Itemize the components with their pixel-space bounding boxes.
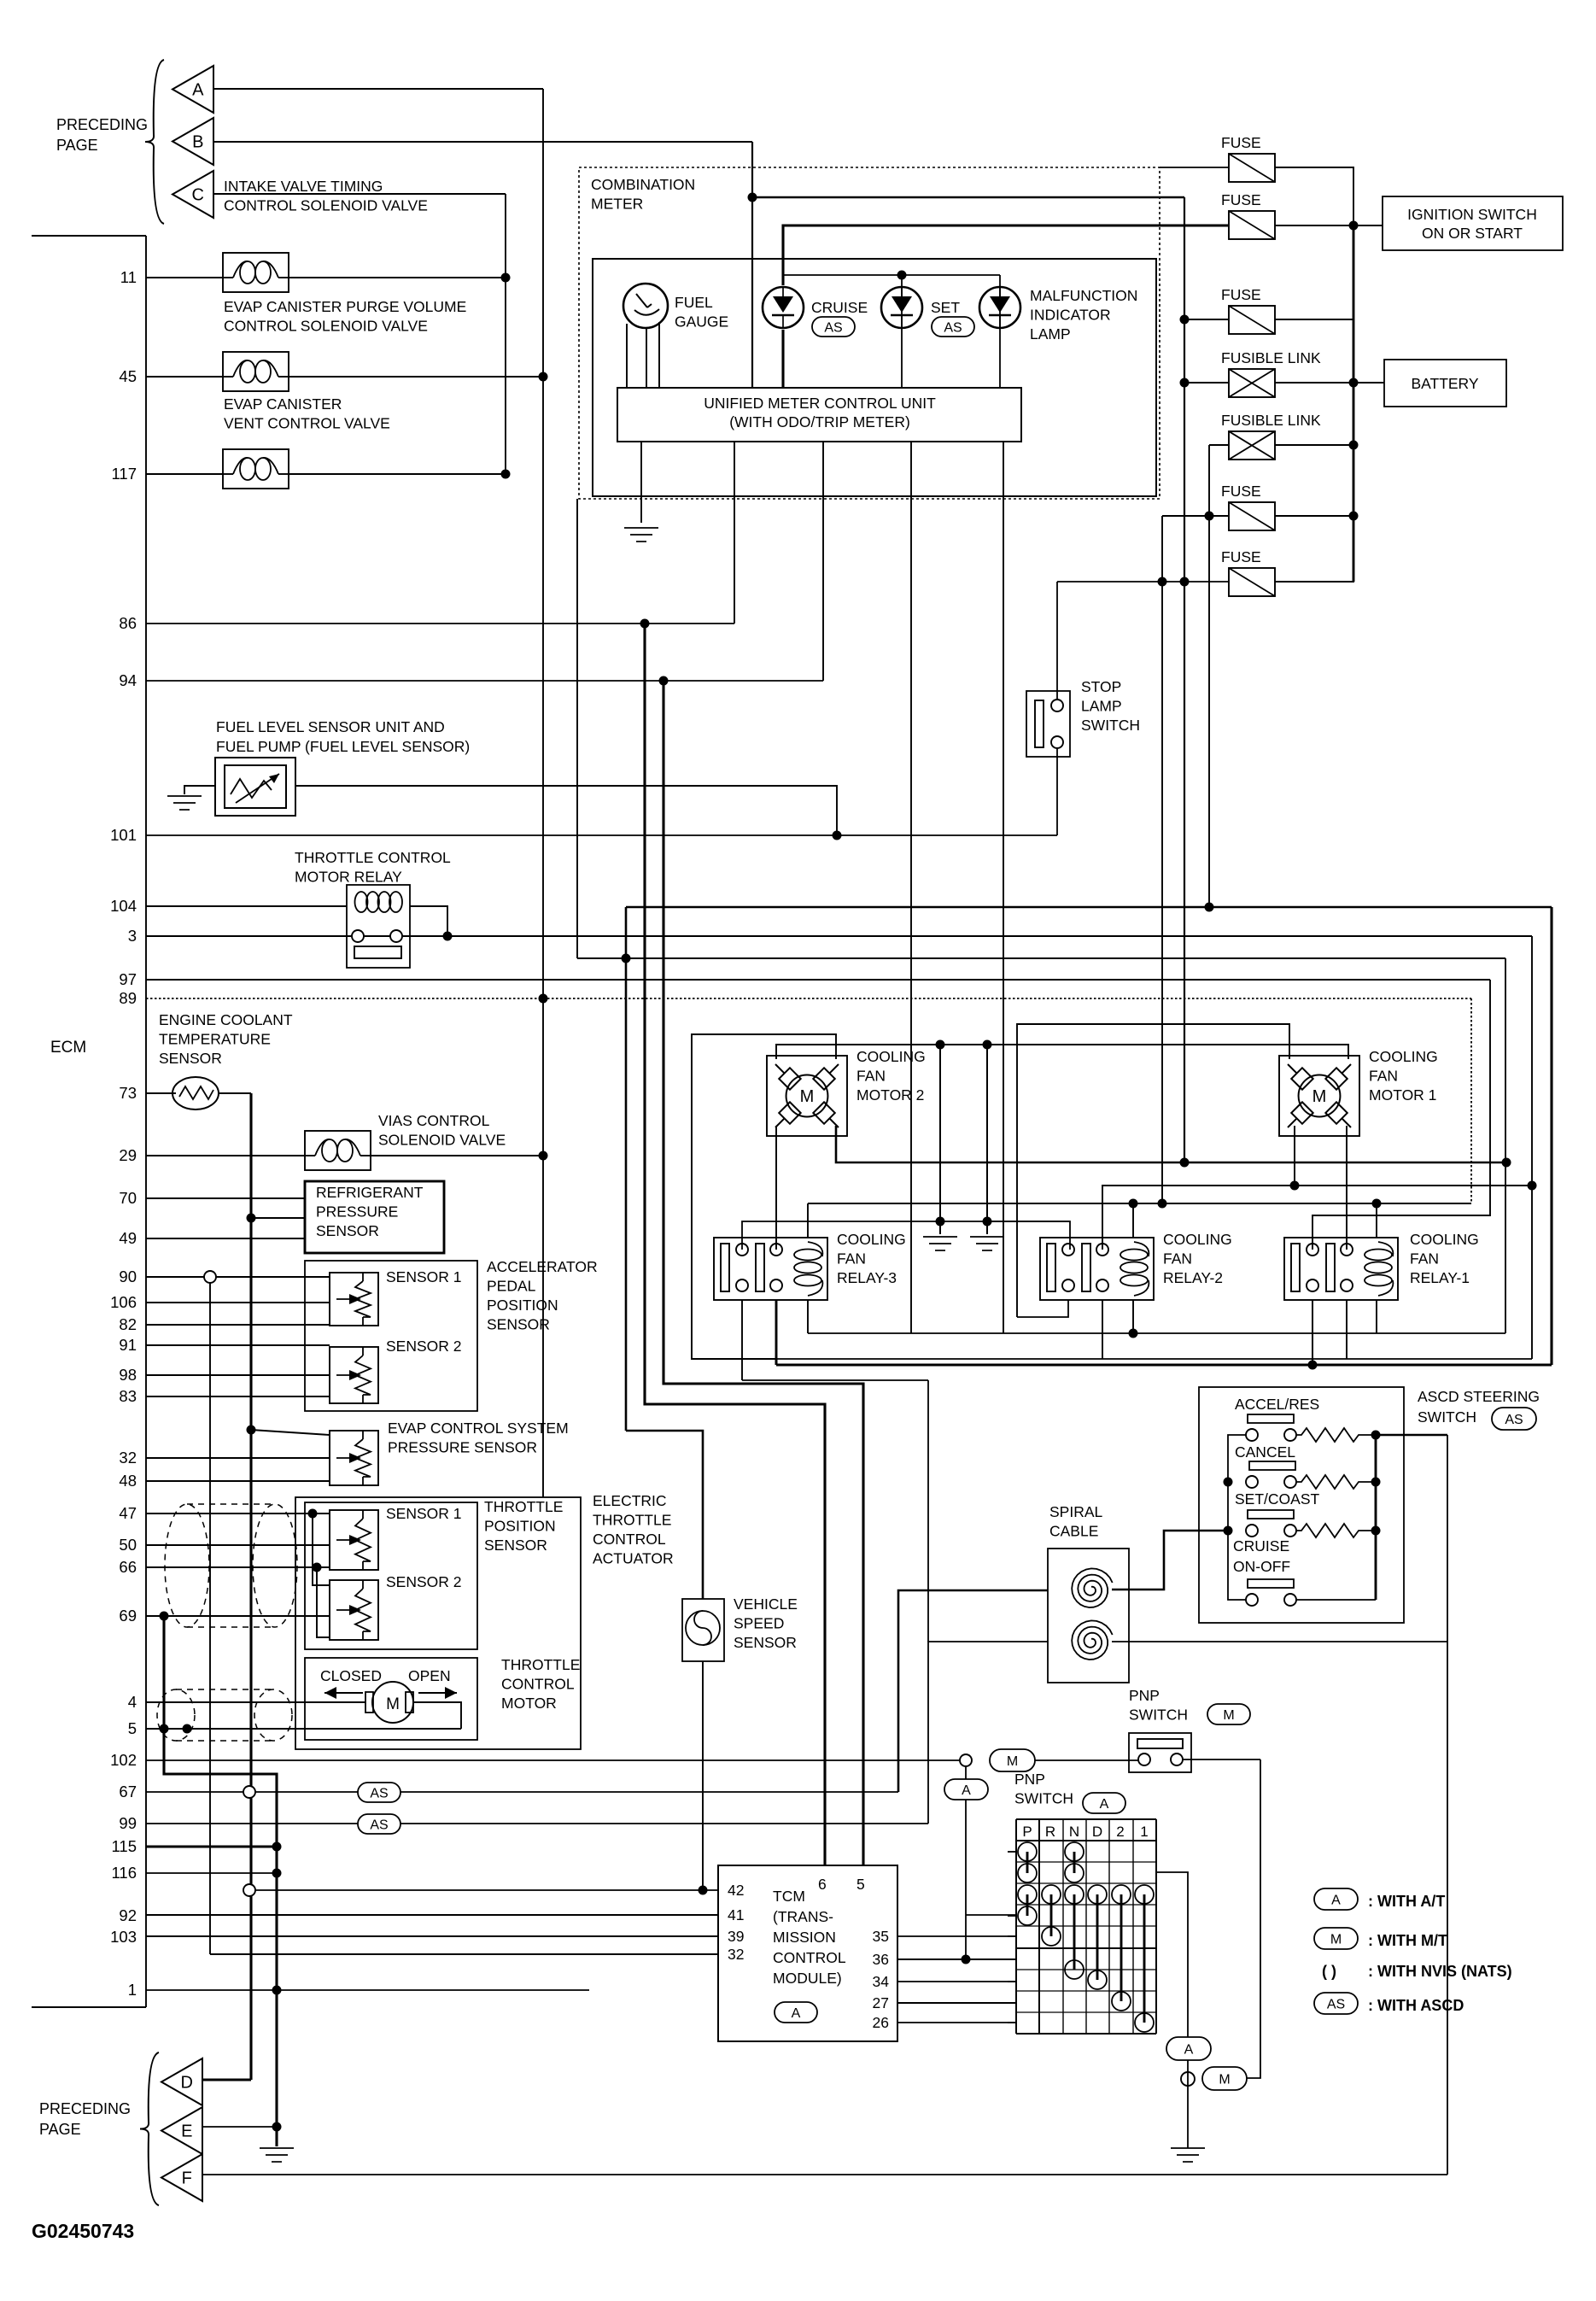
svg-text:CLOSED: CLOSED <box>320 1667 382 1684</box>
svg-text:STOP: STOP <box>1081 678 1121 695</box>
junction 1361 x1764 <box>1502 1158 1511 1168</box>
wire E <box>202 2126 277 2128</box>
svg-text:MOTOR 2: MOTOR 2 <box>856 1086 924 1104</box>
fuel gauge legs <box>627 322 659 388</box>
svg-text:MALFUNCTION: MALFUNCTION <box>1030 287 1137 304</box>
wire pin 101 <box>146 834 1057 836</box>
junction coil2 top <box>1129 1199 1138 1209</box>
svg-text:MODULE): MODULE) <box>773 1970 842 1987</box>
battery box <box>1384 360 1506 407</box>
tcm6 feed <box>645 624 825 1865</box>
svg-text:M: M <box>800 1087 815 1106</box>
spiral cable box <box>1048 1549 1129 1683</box>
vss feed <box>626 1431 703 1599</box>
svg-text:THROTTLE CONTROL: THROTTLE CONTROL <box>295 849 451 866</box>
relay2 contact1 feed <box>987 1221 1070 1250</box>
spiral 1 out <box>1112 1531 1228 1590</box>
ECM pin number labels <box>110 268 137 1999</box>
stop lamp switch box <box>1026 691 1070 757</box>
svg-text:SWITCH: SWITCH <box>1418 1408 1476 1426</box>
junction 116 <box>272 1869 282 1878</box>
wire pin 4 <box>146 1701 365 1703</box>
cruise label <box>811 299 868 316</box>
svg-text:ACCELERATOR: ACCELERATOR <box>487 1258 598 1275</box>
svg-text:AS: AS <box>824 320 842 335</box>
cfm ground drop 1 <box>939 1045 941 1221</box>
svg-text:COOLING: COOLING <box>1163 1231 1232 1248</box>
cooling fan relay 3 <box>714 1238 827 1300</box>
junction 1361 x1387 <box>1180 1158 1190 1168</box>
svg-text:COOLING: COOLING <box>1410 1231 1479 1248</box>
svg-text:104: 104 <box>110 897 137 915</box>
cfm2 right pin <box>836 1126 1506 1162</box>
relay3 contact1 bottom <box>741 1300 743 1380</box>
connector triangle B <box>172 118 213 165</box>
cfm1 gnd loop <box>1017 1024 1289 1317</box>
svg-text:D: D <box>1092 1824 1102 1840</box>
unified meter control unit label <box>704 395 936 430</box>
pnp switch A label <box>1014 1771 1073 1807</box>
wire evap top <box>251 1430 330 1435</box>
diode top bus <box>783 271 1000 280</box>
wire pin 102 <box>146 1759 960 1761</box>
evap canister purge volume label <box>224 298 466 335</box>
wire pin 103 (TCM 39) <box>146 1935 718 1937</box>
app sensor 2 label <box>386 1338 462 1355</box>
svg-text:ON-OFF: ON-OFF <box>1233 1558 1290 1575</box>
pnp grid contacts <box>1018 1842 1154 2032</box>
wire 102 to pnp-m <box>1035 1759 1139 1761</box>
svg-text:AS: AS <box>370 1786 388 1800</box>
connector circle 102 <box>960 1754 972 1766</box>
svg-text:CRUISE: CRUISE <box>811 299 868 316</box>
svg-text:PRESSURE SENSOR: PRESSURE SENSOR <box>388 1439 537 1456</box>
preceding page brace top <box>145 60 164 224</box>
cruise on-off label <box>1233 1537 1294 1588</box>
connector triangle D <box>161 2058 202 2105</box>
junction cfm2 gnd <box>936 1040 945 1050</box>
junction 94 <box>659 676 669 686</box>
cfm1 right pin <box>1346 1126 1348 1250</box>
svg-text:ON OR START: ON OR START <box>1422 225 1523 242</box>
svg-text:IGNITION SWITCH: IGNITION SWITCH <box>1407 206 1537 223</box>
stop lamp switch label <box>1081 678 1140 734</box>
svg-text:EVAP CANISTER PURGE VOLUME: EVAP CANISTER PURGE VOLUME <box>224 298 466 315</box>
pnp-a feed <box>965 1800 967 1959</box>
svg-text:SWITCH: SWITCH <box>1129 1707 1188 1724</box>
svg-text:ENGINE COOLANT: ENGINE COOLANT <box>159 1011 293 1028</box>
preceding page label bottom <box>39 2100 131 2138</box>
wire refrigerant mid <box>251 1217 305 1219</box>
ECM label <box>50 1039 86 1057</box>
A oval bottom <box>1166 2037 1211 2060</box>
meter wire 4 down <box>910 442 912 1333</box>
vertical x1387 supply <box>1184 197 1185 1162</box>
connector circle 67 <box>243 1786 255 1798</box>
combination meter dashed box <box>579 167 1160 499</box>
legend A text <box>1368 1893 1445 1910</box>
junction tps low <box>313 1563 322 1572</box>
wire row 2288 (TCM 32) <box>210 1953 718 1955</box>
svg-text:: WITH A/T: : WITH A/T <box>1368 1893 1445 1910</box>
svg-text:CONTROL: CONTROL <box>593 1531 666 1548</box>
pnp grid left stubs <box>1008 1852 1016 2023</box>
cancel label <box>1235 1443 1295 1470</box>
svg-text:FUSE: FUSE <box>1221 191 1261 208</box>
svg-text:69: 69 <box>119 1607 137 1625</box>
throttle control motor relay <box>347 885 410 968</box>
svg-text:ACCEL/RES: ACCEL/RES <box>1235 1396 1319 1413</box>
ascd row3 <box>1224 1524 1381 1537</box>
junction 29/x636 <box>539 1151 548 1161</box>
cooling fan motor 1 box <box>1279 1056 1359 1136</box>
wire 29 to bus <box>369 1155 543 1156</box>
shield link lines 2 <box>176 1689 273 1741</box>
bottom ground left <box>260 2148 294 2162</box>
meter wire 5 down <box>1003 442 1004 1333</box>
pnp grid right out <box>1156 1872 1188 2037</box>
vehicle speed sensor label <box>734 1595 798 1651</box>
junction bus 1537 <box>1308 1361 1318 1370</box>
junction fuse5 x1387 <box>1180 577 1190 587</box>
A oval row102 <box>944 1779 988 1800</box>
tcm pin 32 <box>728 1946 744 1963</box>
svg-text:94: 94 <box>119 671 137 689</box>
svg-text:CONTROL: CONTROL <box>773 1949 846 1966</box>
wire pin 29 <box>146 1155 305 1156</box>
fuel sensor ground <box>167 796 202 810</box>
tcm A oval <box>775 2002 817 2023</box>
fuse 5 wires <box>1057 567 1353 582</box>
pnp switch M box <box>1129 1733 1191 1772</box>
svg-text:42: 42 <box>728 1882 744 1899</box>
junction 69 shield <box>160 1612 169 1621</box>
svg-text:ELECTRIC: ELECTRIC <box>593 1492 667 1509</box>
svg-text:90: 90 <box>119 1268 137 1285</box>
spiral coil 2 <box>1072 1620 1113 1660</box>
vertical x1416 from FL2 <box>1208 445 1210 906</box>
open arrow <box>418 1687 457 1699</box>
svg-text:27: 27 <box>873 1994 889 2011</box>
wire pin 99 <box>146 1823 928 1824</box>
fuel level sensor label <box>216 718 470 755</box>
connector triangle A <box>172 66 213 113</box>
connector triangle F <box>161 2154 202 2201</box>
shield ellipse 3 <box>157 1689 195 1741</box>
svg-text:MISSION: MISSION <box>773 1929 836 1946</box>
spiral coil 1 <box>1072 1568 1113 1607</box>
svg-text:86: 86 <box>119 614 137 632</box>
wire pin 91 <box>146 1344 330 1346</box>
vehicle speed sensor symbol <box>686 1611 720 1645</box>
set label <box>931 299 960 316</box>
svg-text:RELAY-1: RELAY-1 <box>1410 1269 1470 1286</box>
AS oval cruise <box>812 317 855 337</box>
junction E/ground bus <box>272 2122 282 2132</box>
tcm pin 35 <box>873 1928 889 1945</box>
svg-text:(TRANS-: (TRANS- <box>773 1908 833 1925</box>
svg-text:( ): ( ) <box>1322 1963 1336 1980</box>
electric throttle control actuator label <box>593 1492 674 1567</box>
throttle motor symbol <box>365 1682 413 1723</box>
feed right x1817 <box>1550 907 1552 1365</box>
junction fuel/101 <box>833 831 842 840</box>
svg-text:FAN: FAN <box>1410 1250 1439 1268</box>
junction gnd 2 <box>983 1040 992 1227</box>
svg-text:66: 66 <box>119 1558 137 1576</box>
malfunction indicator lamp label <box>1030 287 1137 343</box>
fuse 4 wires <box>1162 515 1353 517</box>
combination meter label <box>591 176 695 213</box>
A oval link <box>965 1766 967 1779</box>
svg-text:SENSOR: SENSOR <box>734 1634 797 1651</box>
svg-text:73: 73 <box>119 1084 137 1102</box>
svg-text:FUSE: FUSE <box>1221 286 1261 303</box>
refrigerant pressure sensor label <box>316 1184 424 1239</box>
connector triangle C <box>172 171 213 218</box>
cooling fan relay 2 label <box>1163 1231 1232 1286</box>
svg-text:ECM: ECM <box>50 1039 86 1057</box>
throttle control motor label <box>501 1656 580 1712</box>
tcm out 27 <box>897 2002 1016 2004</box>
vias control solenoid valve label <box>378 1112 506 1149</box>
junction fuse4 bus <box>1158 1199 1167 1209</box>
svg-text:48: 48 <box>119 1472 137 1490</box>
solenoid valve 45 <box>223 352 289 391</box>
tcm pin 36 <box>873 1951 889 1968</box>
shield ellipse 1 <box>165 1504 209 1627</box>
fuel gauge label <box>675 294 728 331</box>
ascd row2 <box>1224 1475 1381 1489</box>
junction coil2 bottom <box>1129 1329 1138 1338</box>
tcm box <box>718 1865 897 2041</box>
wire 11 to bus <box>289 277 506 278</box>
ascd feed down <box>1447 1435 1448 2175</box>
cooling fan relay 1 label <box>1410 1231 1479 1286</box>
shield ellipse 4 <box>254 1689 292 1741</box>
svg-text:FUEL PUMP (FUEL LEVEL SENSOR): FUEL PUMP (FUEL LEVEL SENSOR) <box>216 738 470 755</box>
wire pin 70 <box>146 1197 305 1199</box>
svg-text:EVAP CONTROL SYSTEM: EVAP CONTROL SYSTEM <box>388 1420 569 1437</box>
relay3 coil top <box>807 1203 809 1238</box>
set lamp wire <box>901 275 903 388</box>
junction battery bus 3 <box>1349 512 1359 521</box>
svg-text:41: 41 <box>728 1906 744 1923</box>
meter wire 2 down <box>734 442 735 624</box>
junction relay/3 <box>443 932 453 941</box>
svg-text:SWITCH: SWITCH <box>1014 1790 1073 1807</box>
svg-text:GAUGE: GAUGE <box>675 313 728 331</box>
svg-text:CANCEL: CANCEL <box>1235 1443 1295 1461</box>
shield link lines <box>187 1504 275 1627</box>
junction row1122 <box>622 954 631 963</box>
vertical bus x592 (C/11/117) <box>505 194 506 474</box>
tcm pin 6 <box>818 1876 827 1893</box>
svg-text:SET: SET <box>931 299 960 316</box>
relay1 contact1 bottom <box>1312 1300 1313 1365</box>
throttle position sensor box <box>305 1502 477 1649</box>
relay bottom dotted 1616 <box>742 1379 928 1381</box>
engine coolant temperature sensor <box>172 1077 219 1110</box>
junction 5 shield <box>160 1724 169 1734</box>
connector circle bottom <box>1181 2072 1195 2086</box>
svg-text:SOLENOID VALVE: SOLENOID VALVE <box>378 1132 506 1149</box>
svg-text:COOLING: COOLING <box>837 1231 906 1248</box>
fuse 2 label <box>1221 191 1261 208</box>
svg-text:VENT CONTROL VALVE: VENT CONTROL VALVE <box>224 415 390 432</box>
junction tps supply <box>308 1509 318 1519</box>
connector circle 90 <box>204 1271 216 1283</box>
wire pin 104 <box>146 905 347 907</box>
feed right x1794 <box>1531 936 1533 1359</box>
relay1 coil riser <box>1372 1199 1382 1238</box>
svg-text:M: M <box>386 1695 400 1713</box>
fuse 1 wires <box>1160 167 1353 225</box>
svg-text:ACTUATOR: ACTUATOR <box>593 1550 674 1567</box>
accelerator pedal position sensor box <box>305 1261 477 1411</box>
fusible link 2 <box>1229 431 1275 460</box>
accelerator pedal position sensor label <box>487 1258 598 1333</box>
cruise lamp diode <box>763 287 804 328</box>
tps sensor 1 label <box>386 1505 462 1522</box>
svg-text:REFRIGERANT: REFRIGERANT <box>316 1184 424 1201</box>
svg-text:35: 35 <box>873 1928 889 1945</box>
app sensor 2 <box>330 1347 378 1403</box>
vertical B x881 down to meter <box>751 142 753 388</box>
svg-text:FAN: FAN <box>837 1250 866 1268</box>
relay2 contact1 bottom <box>1017 1300 1068 1317</box>
svg-text:SET/COAST: SET/COAST <box>1235 1490 1319 1508</box>
svg-text:UNIFIED METER CONTROL UNIT: UNIFIED METER CONTROL UNIT <box>704 395 936 412</box>
tcm pin 26 <box>873 2014 889 2031</box>
ascd row4 <box>1246 1594 1376 1606</box>
relay3 c2 stub <box>775 1359 778 1365</box>
svg-text:(WITH ODO/TRIP METER): (WITH ODO/TRIP METER) <box>729 413 910 430</box>
vss feed riser x733 <box>625 907 628 1431</box>
svg-text:METER: METER <box>591 196 643 213</box>
tcm out 36 <box>897 1958 1016 1960</box>
relay coil bus 1409 <box>808 1203 1471 1204</box>
svg-text:THROTTLE: THROTTLE <box>593 1512 671 1529</box>
svg-text:4: 4 <box>128 1693 137 1711</box>
svg-text:1: 1 <box>1140 1824 1148 1840</box>
legend nvis text <box>1368 1963 1512 1980</box>
svg-text:SENSOR: SENSOR <box>484 1537 547 1554</box>
svg-text:E: E <box>181 2122 192 2141</box>
wire F <box>202 2174 1447 2175</box>
legend M oval <box>1314 1928 1358 1949</box>
svg-text:116: 116 <box>112 1864 137 1882</box>
tcm pin 5 <box>856 1876 865 1893</box>
svg-text:SENSOR 2: SENSOR 2 <box>386 1573 462 1590</box>
engine coolant temperature sensor label <box>159 1011 293 1067</box>
cruise lamp wire down <box>781 330 784 388</box>
heavy bus 1598 <box>776 1363 1552 1366</box>
malfunction indicator lamp diode <box>979 287 1020 328</box>
cooling fan relay 3 label <box>837 1231 906 1286</box>
ascd left rail <box>1228 1435 1246 1600</box>
fuse 4 <box>1229 502 1275 530</box>
pnp switch M oval <box>1207 1704 1250 1724</box>
svg-text:OPEN: OPEN <box>408 1667 451 1684</box>
tps sensor 2 <box>330 1580 378 1640</box>
spiral feed 99 <box>928 1642 1048 1824</box>
evap canister vent control valve label <box>224 395 390 432</box>
meter wire 3 down <box>822 442 824 681</box>
vertical x1361 from fuse4 <box>1161 516 1163 1200</box>
relay1 contact2 bottom <box>1346 1300 1348 1359</box>
fuse 2 wires <box>783 225 1383 226</box>
vertical bus x636 (A/45/VIAS) <box>539 89 548 1497</box>
junction evap top <box>247 1426 256 1435</box>
ground cfm 1 <box>923 1221 957 1250</box>
battery label <box>1411 375 1478 392</box>
svg-text:67: 67 <box>119 1783 137 1800</box>
cruise supply corner <box>783 225 1229 285</box>
accel/res label <box>1235 1396 1319 1423</box>
wire 1388 to x1794 <box>1290 1181 1537 1191</box>
svg-text:FUEL: FUEL <box>675 294 713 311</box>
svg-text:FUEL LEVEL SENSOR UNIT AND: FUEL LEVEL SENSOR UNIT AND <box>216 718 445 735</box>
meter ground <box>624 528 658 542</box>
svg-text:POSITION: POSITION <box>484 1518 556 1535</box>
tcm out 35 <box>897 1935 1016 1937</box>
evap pressure sensor <box>330 1431 378 1485</box>
svg-text:FUSIBLE LINK: FUSIBLE LINK <box>1221 349 1321 366</box>
svg-text:11: 11 <box>120 268 137 286</box>
svg-text:PRECEDING: PRECEDING <box>39 2100 131 2117</box>
svg-text:98: 98 <box>119 1366 137 1384</box>
svg-text:AS: AS <box>944 320 962 335</box>
wire pin 47 <box>146 1513 330 1514</box>
wire pin 115 <box>146 1846 277 1848</box>
svg-text:36: 36 <box>873 1951 889 1968</box>
svg-text:A: A <box>1331 1893 1341 1907</box>
app sensor 1 <box>330 1273 378 1326</box>
svg-text:39: 39 <box>728 1928 744 1945</box>
junction 36 row <box>962 1955 971 1964</box>
unified meter control unit box <box>617 388 1021 442</box>
throttle control motor box <box>305 1658 477 1740</box>
wire pin 67 <box>146 1791 898 1793</box>
junction fuse5 x1361 <box>1158 577 1167 587</box>
svg-text:FAN: FAN <box>1163 1250 1192 1268</box>
preceding page brace bottom <box>140 2052 159 2205</box>
svg-text:SENSOR: SENSOR <box>487 1316 550 1333</box>
svg-text:34: 34 <box>873 1973 890 1990</box>
tcm out 26 <box>897 2022 1016 2023</box>
svg-text:MOTOR: MOTOR <box>501 1695 557 1712</box>
shield drain x192 <box>164 1616 277 2146</box>
coil bottom bus 1561 <box>808 1332 1505 1334</box>
svg-text:F: F <box>182 2169 192 2188</box>
svg-text:CONTROL SOLENOID VALVE: CONTROL SOLENOID VALVE <box>224 318 428 335</box>
wire pin 82 <box>146 1324 330 1326</box>
svg-text:M: M <box>1330 1932 1342 1947</box>
wire pin 49 <box>146 1238 305 1239</box>
svg-text:THROTTLE: THROTTLE <box>484 1498 563 1515</box>
throttle motor loop <box>413 1702 461 1729</box>
svg-text:83: 83 <box>119 1387 137 1405</box>
svg-text:2: 2 <box>1116 1824 1124 1840</box>
fuse 1 <box>1229 154 1275 182</box>
svg-text:SENSOR: SENSOR <box>159 1050 222 1067</box>
svg-text:47: 47 <box>119 1504 137 1522</box>
AS oval set <box>932 317 974 337</box>
svg-text:AS: AS <box>1327 1997 1345 2011</box>
svg-text:49: 49 <box>119 1229 137 1247</box>
cooling fan motor 2 box <box>767 1056 847 1136</box>
